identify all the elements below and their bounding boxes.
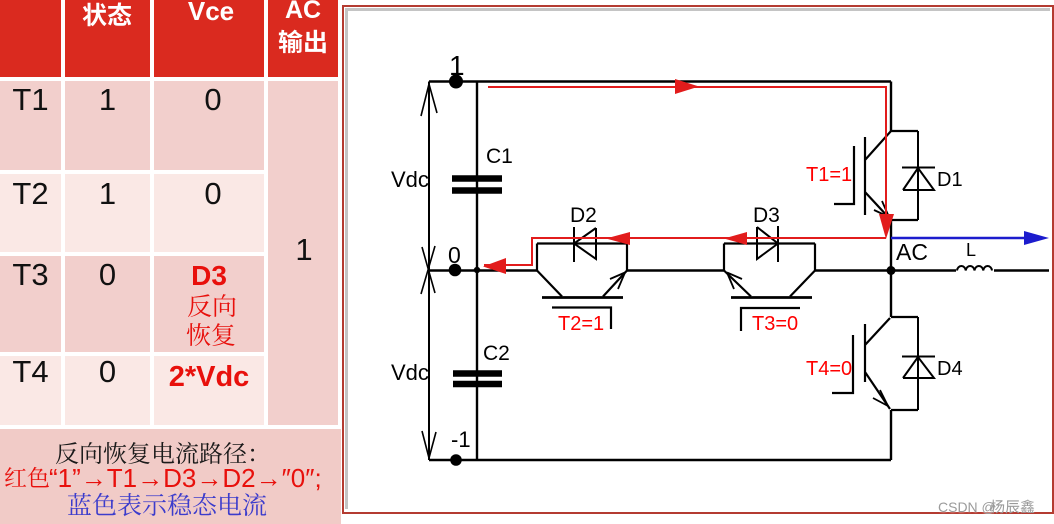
note line 2 — [4, 466, 50, 489]
wire AC output after inductor — [994, 269, 1049, 271]
red wire top (from node 1 to T1) — [488, 87, 886, 214]
diode D4 — [902, 317, 935, 410]
measure arrows at node 0 (X) — [421, 246, 435, 294]
diode D2 — [574, 227, 596, 262]
blue wire AC output — [891, 237, 1026, 240]
circuit frame — [342, 5, 1054, 514]
table body cells — [0, 81, 61, 170]
diode D1 — [902, 131, 935, 220]
svg-text:T4=0: T4=0 — [806, 358, 852, 380]
inductor L — [957, 266, 992, 270]
red wire reverse recovery (T1 to D3 to D2 to node 0) — [484, 238, 886, 265]
wire right branch upper (node1 to T1) — [890, 82, 892, 132]
svg-text:T1=1: T1=1 — [806, 164, 852, 186]
transistor T2 emitter arrow — [610, 273, 625, 290]
svg-text:T2=1: T2=1 — [558, 313, 604, 335]
capacitor C2 — [453, 374, 502, 385]
svg-text:T3=0: T3=0 — [752, 313, 798, 335]
transistor T3 body — [724, 244, 815, 297]
red arrow before D2 — [606, 232, 630, 245]
node 0 dot — [449, 264, 462, 277]
diode D3 — [757, 226, 778, 262]
red arrow before D3 — [724, 232, 747, 245]
svg-text:-1: -1 — [451, 427, 471, 452]
red arrow on top rail — [675, 79, 699, 94]
svg-text:D3: D3 — [753, 204, 780, 227]
junction dot AC — [887, 266, 896, 275]
transistor T4 emitter arrow — [873, 390, 888, 406]
svg-text:D4: D4 — [937, 358, 963, 380]
wire T1 emitter to T4 collector through AC node — [890, 220, 892, 317]
wire Vdc measuring line — [428, 82, 430, 461]
wire top rail node1 — [429, 80, 891, 82]
transistor T1 emitter arrow — [874, 201, 889, 217]
transistor T3 gate bar — [731, 296, 812, 299]
svg-text:0: 0 — [448, 242, 461, 268]
transistor T3 gate lead — [741, 308, 800, 331]
svg-text:D1: D1 — [937, 169, 963, 191]
transistor T1 gate lead — [834, 146, 854, 204]
svg-text:C1: C1 — [486, 145, 513, 168]
junction dot cap branch — [474, 267, 480, 273]
svg-text:1: 1 — [449, 50, 465, 81]
svg-text:C2: C2 — [483, 342, 510, 365]
table header row — [0, 0, 61, 77]
transistor T3 emitter arrow — [727, 273, 742, 290]
header labels — [82, 2, 132, 27]
wire node 0 rail — [429, 269, 537, 271]
AC output merged cell value — [269, 232, 339, 268]
red arrow at node 0 — [483, 258, 506, 274]
transistor T2 gate lead — [552, 308, 611, 330]
svg-text:Vdc: Vdc — [391, 360, 429, 385]
blue arrow — [1024, 231, 1049, 245]
wire T3 to AC node — [815, 269, 956, 271]
transistor T1 body — [865, 131, 918, 220]
svg-text:AC: AC — [896, 239, 928, 265]
wire capacitor branch — [476, 82, 478, 461]
wire T2-T3 link — [627, 269, 724, 271]
svg-text:L: L — [966, 240, 976, 260]
transistor T2 gate bar — [542, 296, 623, 299]
wire bottom rail node -1 — [429, 459, 891, 461]
note line 1 — [55, 441, 271, 465]
capacitor C1 — [452, 179, 502, 191]
measure arrow down — [422, 431, 436, 458]
transistor T2 body — [537, 244, 627, 297]
wire below T4 to bottom rail — [890, 410, 892, 460]
note line 3 — [67, 492, 267, 517]
measure arrow up — [421, 84, 437, 116]
svg-text:Vdc: Vdc — [391, 167, 429, 192]
watermark — [938, 499, 996, 515]
T3 Vce cell: D3 reverse recovery — [154, 260, 264, 292]
node -1 dot — [450, 454, 462, 466]
node 1 dot — [449, 75, 463, 89]
red arrow big at T1 — [879, 214, 894, 239]
svg-text:D2: D2 — [570, 204, 597, 227]
notes background — [0, 429, 341, 524]
transistor T4 gate lead — [832, 335, 853, 393]
transistor T4 body — [865, 317, 918, 410]
